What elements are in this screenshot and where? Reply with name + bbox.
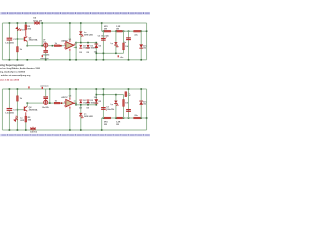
label R3 1k (20, 49, 23, 51)
capacitor C3b 100u (101, 107, 107, 111)
wire bottom rail V- raw (2, 129, 146, 132)
node fb junction 1 (96, 53, 98, 55)
label C3b 100u/35t (106, 106, 114, 111)
node cap common junction (45, 59, 47, 61)
svg-text:1,0u/250: 1,0u/250 (5, 113, 14, 115)
wire feedback line (96, 52, 123, 55)
wire right rail (145, 23, 148, 60)
node pre-reg junction (41, 45, 43, 47)
label TP lower pair (79, 107, 89, 109)
node C3b common junction (103, 88, 105, 90)
node C4 common junction (128, 59, 130, 61)
node V+ junction neg (69, 88, 71, 90)
label Q1 2N2219A (29, 37, 38, 41)
node R4 junction (52, 45, 54, 47)
wire V+ supply (68, 23, 71, 40)
diode D5 (94, 44, 98, 48)
diode D3b 1N4148 (87, 100, 90, 104)
pin 6 mark neg (75, 103, 76, 105)
node D2 junction (80, 42, 82, 44)
label R9b (128, 93, 131, 97)
node divider common junction (96, 59, 98, 61)
node C4b common junction (128, 88, 130, 90)
label U2 AD797 (61, 96, 68, 99)
resistor R4 1k (54, 45, 59, 47)
wire feedback line neg (96, 93, 123, 96)
wire pre-reg branch (41, 23, 44, 46)
node line B right end neg (96, 104, 98, 106)
svg-text:3W: 3W (104, 124, 107, 126)
label D2 1N4148 (83, 46, 90, 50)
transistor Q1b (24, 106, 28, 111)
label U2 ref (69, 96, 72, 98)
label D1b (20, 118, 25, 122)
label R4 1k (55, 43, 58, 45)
node inverting input neg (61, 102, 63, 104)
wire noninverting net neg (76, 103, 96, 106)
svg-text:D4 6V2: D4 6V2 (30, 131, 38, 134)
capacitor C4b (126, 109, 131, 112)
title text line 3 (0, 71, 26, 74)
label D5b (99, 101, 101, 103)
resistor R6b 1,2R (116, 117, 122, 119)
node base junction neg (17, 109, 19, 111)
wire C4b branch (127, 89, 130, 118)
label R2 390 (27, 26, 31, 30)
svg-text:1W: 1W (116, 124, 119, 126)
node line B left end (75, 42, 77, 44)
node inverting input (60, 45, 62, 47)
label C1b ref (13, 110, 16, 112)
label C5 47u/35t (143, 44, 147, 49)
svg-text:wing Superregulator: wing Superregulator (0, 63, 24, 67)
label L2 Lp (111, 43, 114, 45)
node fb junction 2 (103, 53, 105, 55)
svg-text:2: 2 (64, 101, 65, 103)
inductor L1b 22u (134, 117, 141, 119)
node LED bottom junction neg (80, 129, 82, 131)
node C3 common junction (103, 59, 105, 61)
label D2b (83, 100, 90, 104)
wire collector stub neg (24, 122, 27, 130)
svg-text:6V2 1.3W: 6V2 1.3W (33, 20, 42, 22)
svg-text:10u/25t: 10u/25t (42, 106, 49, 109)
label R4b 1k (55, 100, 58, 102)
node bottom junction c (25, 129, 27, 131)
title text line 5 (0, 79, 20, 81)
resistor R5 0R1 (104, 30, 111, 32)
wire C5b branch (140, 89, 143, 118)
node bottom junction b (17, 129, 19, 131)
node rail junction d (25, 22, 27, 24)
node bottom junction a (9, 129, 11, 131)
terminal V- out (28, 86, 29, 88)
resistor R5b 0R1 (104, 117, 111, 119)
label D1 (22, 29, 26, 31)
svg-text:rsion 1.02 van 2010: rsion 1.02 van 2010 (0, 79, 20, 81)
node fbb junction 1 (96, 94, 98, 96)
resistor R8 10k (123, 43, 125, 50)
wire op-amp output lower (74, 46, 76, 49)
svg-text:ring, AudioXpress 6/2000: ring, AudioXpress 6/2000 (0, 71, 26, 74)
label U1 ref (69, 39, 72, 41)
node common junction a (9, 59, 11, 61)
capacitor C2 10u (43, 50, 48, 53)
wire sense divider branch (95, 43, 98, 60)
pin 2 mark neg (64, 101, 65, 103)
svg-text:GRN LED: GRN LED (84, 116, 94, 118)
svg-text:1,0u/250: 1,0u/250 (5, 43, 14, 45)
wire raw to sense (100, 23, 103, 31)
label common bottom (40, 86, 49, 88)
label R8 (125, 46, 129, 48)
node D3b junction (87, 104, 89, 106)
resistor R6 1,2R (116, 30, 122, 32)
label C3 100u/35t (98, 34, 109, 37)
wire R2 to Q1 (24, 30, 27, 37)
label D3 1N4148 (91, 46, 98, 50)
node pre-reg junction neg (49, 102, 51, 104)
capacitor C5 47u (139, 44, 143, 48)
wire cap to common (44, 53, 47, 60)
node output junction neg (75, 103, 77, 105)
svg-text:e articles at www.waltjung.org: e articles at www.waltjung.org (0, 74, 31, 77)
resistor R9b (125, 92, 127, 97)
node output common junction (75, 59, 77, 61)
node D3 junction (87, 42, 89, 44)
node common junction c (27, 59, 29, 61)
wire LED branch neg (79, 105, 82, 130)
svg-text:100u/35t: 100u/35t (106, 108, 114, 111)
node bottom junction d (49, 88, 51, 90)
wire LED2 branch (114, 31, 117, 53)
op-amp U1 (66, 42, 74, 49)
wire input cap branch neg (8, 89, 11, 130)
wire bottom left rail (1, 89, 4, 130)
label C1b value (5, 113, 14, 115)
wire R8 branch (122, 31, 125, 53)
wire base feed neg (17, 108, 24, 111)
svg-text:D9: D9 (87, 52, 89, 54)
node emitter junction (27, 45, 29, 47)
wire C3 branch (102, 31, 105, 60)
svg-text:D8: D8 (79, 52, 81, 54)
svg-text:D5: D5 (99, 45, 101, 47)
label D4b 6V2 (30, 131, 38, 134)
label R2b 390 (28, 117, 32, 121)
node C3b junction (103, 117, 105, 119)
svg-text:GRN LED: GRN LED (84, 35, 94, 37)
inductor L1 22u (134, 30, 141, 32)
label D4 6V2 (33, 20, 42, 22)
node LED rail junction (80, 22, 82, 24)
resistor R2 390 (25, 25, 27, 30)
wire Q1 emitter (26, 41, 29, 45)
svg-text:sed on Jung/Didden, Audio Amat: sed on Jung/Didden, Audio Amateur 1995 (0, 67, 41, 70)
label C2b 10u/25t (42, 106, 49, 109)
LED L2 (114, 42, 118, 47)
resistor R3 1k (17, 47, 19, 52)
label C1 (13, 39, 17, 41)
svg-text:10u/25t: 10u/25t (42, 54, 49, 57)
node C5b junction (140, 117, 142, 119)
node rail junction c (41, 22, 43, 24)
pin 6 mark (75, 44, 76, 46)
node bottom junction f (9, 88, 11, 90)
wire D1 branch (16, 23, 19, 60)
node bottom junction e (17, 88, 19, 90)
op-amp V- stub neg (68, 107, 71, 109)
terminal common top (42, 55, 43, 57)
op-amp V- stub (68, 49, 71, 51)
label C4 1u (124, 42, 127, 44)
terminal V+ out (118, 55, 119, 57)
label R6b 1,2R 1W (116, 121, 121, 125)
svg-text:D8: D8 (79, 107, 81, 109)
wire output rail x76 neg (75, 89, 78, 105)
wire C4 branch (127, 31, 130, 60)
label above zener (33, 17, 36, 20)
label R8b (125, 103, 129, 105)
wire pre-reg branch neg (48, 89, 51, 103)
op-amp U2 (66, 99, 74, 106)
label common top (40, 58, 49, 60)
label Q1b 2N2905A (29, 107, 38, 111)
wire R8b branch (122, 95, 125, 118)
wire op-amp input net (27, 44, 66, 47)
capacitor C1 1,0u 250 (7, 38, 13, 41)
node sense rail start (101, 22, 103, 24)
wire top rail V+ raw (2, 22, 146, 25)
node R8 junction (123, 30, 125, 32)
bottom ruler strip (0, 134, 152, 137)
wire op-amp output upper neg (73, 102, 76, 105)
wire raw to sense neg (100, 118, 103, 130)
svg-text:AD797: AD797 (61, 96, 68, 99)
pin 2 mark (64, 44, 65, 46)
capacitor C2b 10u (43, 96, 48, 99)
wire V+ supply neg (68, 89, 71, 97)
node sense right end (146, 30, 148, 32)
wire V- to common (68, 51, 71, 60)
node C3 junction (103, 30, 105, 32)
node fbb junction 3 (115, 94, 117, 96)
node LED2 junction (115, 30, 117, 32)
node sense right end neg (146, 117, 148, 119)
label L1 22u (134, 34, 138, 36)
label R6 1,2R 1W (116, 26, 121, 30)
wire common rail top section (2, 58, 146, 61)
pin 3 mark neg (64, 105, 65, 107)
label R5 0R1 3W (104, 26, 109, 30)
node sense rail start neg (101, 129, 103, 131)
title text line 1 (0, 63, 24, 67)
reference Z1b circle (44, 100, 48, 104)
svg-text:3: 3 (64, 48, 65, 50)
wire bottom right rail (145, 89, 148, 130)
wire sense divider branch neg (95, 89, 98, 105)
wire C3b branch (102, 89, 105, 118)
node output junction (75, 47, 77, 49)
wire Q1b emitter (26, 103, 29, 106)
capacitor C5b 47u (139, 101, 143, 105)
wire cap to common neg (44, 89, 47, 97)
svg-text:2N2219A: 2N2219A (29, 39, 38, 42)
reference diode Z1 circle (44, 43, 48, 47)
diode D1 (15, 26, 22, 33)
node C5 common junction (140, 59, 142, 61)
node C5 junction (140, 30, 142, 32)
terminal common bottom (42, 87, 43, 89)
node LED2b junction (115, 117, 117, 119)
wire V- to bottom rail neg (68, 109, 71, 130)
resistor R2b 390 (25, 116, 27, 122)
label C2 10u/25t (42, 54, 49, 57)
title text line 2 (0, 67, 41, 70)
node D2b junction (80, 104, 82, 106)
diode D1b LED (13, 115, 20, 122)
wire base feed (17, 38, 24, 41)
resistor R4b 1k (54, 102, 59, 104)
wire R2b to Q1b (24, 112, 27, 116)
op-amp V+ stub (68, 40, 71, 42)
label R3b 1k (20, 98, 23, 100)
wire sense rail neg (102, 117, 147, 120)
node line B right end (96, 42, 98, 44)
svg-text:3: 3 (64, 105, 65, 107)
label R5b 0R1 3W (104, 121, 109, 125)
label TP upper pair (79, 52, 89, 54)
LED Lnb (79, 113, 83, 118)
node line B end neg (75, 104, 77, 106)
diode D3 1N4148 (87, 45, 90, 49)
transistor Q1 (24, 37, 28, 42)
node divider common junction neg (96, 88, 98, 90)
node output common junction neg (75, 88, 77, 90)
node emitter junction neg (27, 102, 29, 104)
node rail junction a (9, 22, 11, 24)
wire output rail x76 (75, 43, 78, 60)
wire op-amp input net neg (27, 102, 66, 105)
svg-text:2N2905A: 2N2905A (29, 109, 38, 112)
diode D2 1N4148 (79, 45, 82, 49)
label C1 value 1,0u/250 (5, 43, 14, 45)
node C5b common junction (140, 88, 142, 90)
label C5b 47u/35t (143, 101, 147, 106)
svg-text:common: common (40, 86, 49, 88)
wire LED branch (79, 23, 82, 43)
pin 3 mark (64, 48, 65, 50)
label R7 10k (94, 51, 98, 53)
node fb junction 3 (115, 53, 117, 55)
node fbb junction 2 (103, 94, 105, 96)
resistor R3b 1k (17, 96, 19, 101)
label Lnb (84, 114, 94, 119)
wire Z1 to cap (44, 47, 47, 50)
capacitor C1b (7, 108, 13, 111)
diode D2b 1N4148 (79, 100, 82, 104)
node rail junction b (17, 22, 19, 24)
label D3b (91, 100, 98, 104)
svg-text:35t: 35t (143, 46, 146, 49)
wire collector stub (24, 23, 27, 25)
node base wire junction (17, 38, 19, 40)
node C4b junction (128, 117, 130, 119)
label reference AD589 (43, 39, 46, 43)
wire noninverting net (76, 41, 96, 44)
label D5 (99, 45, 101, 47)
op-amp V+ stub neg (68, 97, 71, 99)
node R8b junction (123, 117, 125, 119)
resistor R8b 10k (123, 100, 125, 107)
zener D4 6V2 (34, 21, 39, 25)
svg-text:LED: LED (20, 120, 25, 122)
wire Z1b stub (44, 99, 47, 101)
wire D1b branch (16, 89, 19, 130)
label Ln (84, 32, 94, 37)
title text line 4 (0, 74, 31, 77)
capacitor C4 (126, 37, 131, 40)
label out+ (120, 57, 124, 59)
node common junction b (17, 59, 19, 61)
wire left rail (1, 23, 4, 60)
label L2b Lp (111, 104, 114, 106)
node C4 junction (128, 30, 130, 32)
wire sense rail (102, 30, 147, 33)
wire op-amp output lower neg (74, 100, 76, 103)
svg-text:D9: D9 (87, 107, 89, 109)
wire C5 branch (140, 31, 143, 60)
wire common rail bottom section (2, 88, 146, 91)
svg-text:common: common (40, 58, 49, 60)
label L1b 22u (134, 115, 138, 117)
zener D4b 6V2 (30, 127, 35, 131)
node V- common junction (69, 59, 71, 61)
label U1 AD797 (61, 40, 68, 43)
svg-text:35t: 35t (143, 103, 146, 106)
svg-text:D5: D5 (99, 101, 101, 103)
top ruler strip (0, 12, 152, 15)
wire input cap branch (8, 23, 11, 60)
LED L2b (114, 101, 118, 106)
diode D5b (94, 99, 98, 103)
label R7b 10k (94, 97, 98, 99)
svg-text:2: 2 (64, 44, 65, 46)
node V- junction neg (69, 129, 71, 131)
wire op-amp output upper (73, 43, 76, 46)
capacitor C3 100u (101, 37, 107, 41)
node V+ rail junction (69, 22, 71, 24)
LED Ln green (79, 31, 83, 36)
wire LED2b branch (114, 95, 117, 118)
